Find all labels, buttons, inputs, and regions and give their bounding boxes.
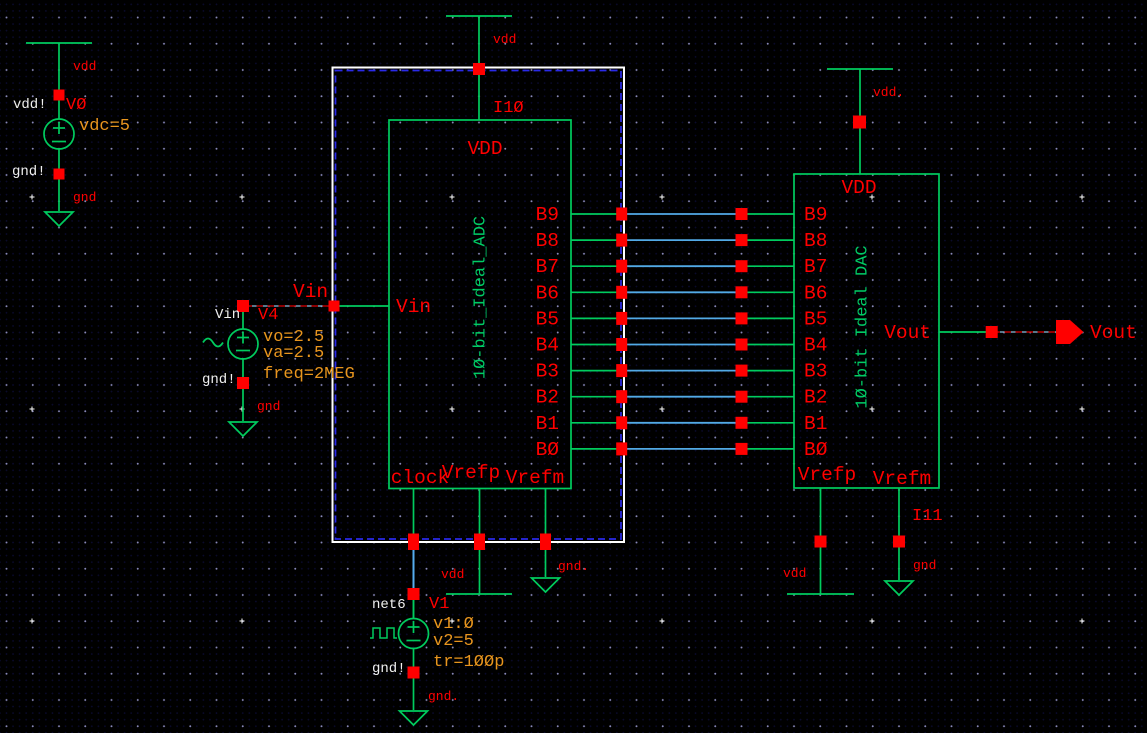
- svg-text:Vrefm: Vrefm: [873, 468, 932, 490]
- svg-text:1Ø-bit_Ideal_ADC: 1Ø-bit_Ideal_ADC: [472, 216, 491, 379]
- svg-text:gnd: gnd: [257, 399, 280, 414]
- svg-text:VØ: VØ: [66, 96, 86, 115]
- svg-text:B4: B4: [536, 335, 559, 357]
- svg-text:vdd: vdd: [73, 59, 96, 74]
- svg-text:B1: B1: [536, 413, 559, 435]
- svg-text:B6: B6: [804, 282, 827, 304]
- svg-text:1Ø-bit Ideal DAC: 1Ø-bit Ideal DAC: [854, 245, 873, 408]
- svg-text:tr=1ØØp: tr=1ØØp: [433, 653, 504, 672]
- svg-text:gnd!: gnd!: [202, 372, 236, 388]
- svg-text:I11: I11: [912, 507, 943, 526]
- svg-text:I1Ø: I1Ø: [493, 99, 524, 118]
- svg-text:vdd: vdd: [493, 32, 516, 47]
- svg-text:Vout: Vout: [884, 322, 931, 344]
- svg-text:B1: B1: [804, 413, 827, 435]
- svg-text:Vin: Vin: [215, 307, 240, 323]
- svg-text:Vrefp: Vrefp: [442, 462, 501, 484]
- svg-text:va=2.5: va=2.5: [263, 344, 324, 363]
- svg-text:vdd.: vdd.: [873, 85, 904, 100]
- svg-text:V1: V1: [429, 595, 449, 614]
- svg-text:V4: V4: [258, 306, 278, 325]
- svg-text:B9: B9: [804, 204, 827, 226]
- svg-text:B5: B5: [536, 308, 559, 330]
- svg-text:vdc=5: vdc=5: [79, 117, 130, 136]
- svg-text:BØ: BØ: [804, 439, 828, 461]
- svg-text:B6: B6: [536, 282, 559, 304]
- svg-text:Vrefm: Vrefm: [506, 467, 565, 489]
- svg-text:B8: B8: [536, 230, 559, 252]
- svg-text:clock: clock: [391, 467, 450, 489]
- svg-text:B3: B3: [536, 361, 559, 383]
- svg-text:vdd: vdd: [783, 566, 806, 581]
- svg-text:Vout: Vout: [1090, 322, 1137, 344]
- svg-text:VDD: VDD: [467, 138, 502, 160]
- svg-text:gnd.: gnd.: [558, 559, 589, 574]
- svg-text:B4: B4: [804, 335, 827, 357]
- svg-text:B7: B7: [804, 256, 827, 278]
- svg-text:freq=2MEG: freq=2MEG: [263, 365, 355, 384]
- svg-text:B9: B9: [536, 204, 559, 226]
- svg-text:Vin: Vin: [396, 296, 431, 318]
- svg-text:gnd!: gnd!: [372, 661, 406, 677]
- svg-text:vdd!: vdd!: [13, 97, 47, 113]
- svg-text:B7: B7: [536, 256, 559, 278]
- svg-text:BØ: BØ: [536, 439, 560, 461]
- svg-text:B5: B5: [804, 308, 827, 330]
- svg-text:Vin: Vin: [293, 281, 328, 303]
- svg-text:vdd: vdd: [441, 567, 464, 582]
- svg-text:net6: net6: [372, 597, 406, 613]
- svg-text:gnd.: gnd.: [428, 689, 459, 704]
- svg-text:v2=5: v2=5: [433, 632, 474, 651]
- svg-text:B8: B8: [804, 230, 827, 252]
- svg-text:gnd: gnd: [913, 558, 936, 573]
- svg-text:gnd!: gnd!: [12, 164, 46, 180]
- svg-text:gnd: gnd: [73, 190, 96, 205]
- svg-text:B2: B2: [536, 387, 559, 409]
- svg-text:Vrefp: Vrefp: [798, 464, 857, 486]
- svg-text:B2: B2: [804, 387, 827, 409]
- svg-text:VDD: VDD: [841, 177, 876, 199]
- svg-text:B3: B3: [804, 361, 827, 383]
